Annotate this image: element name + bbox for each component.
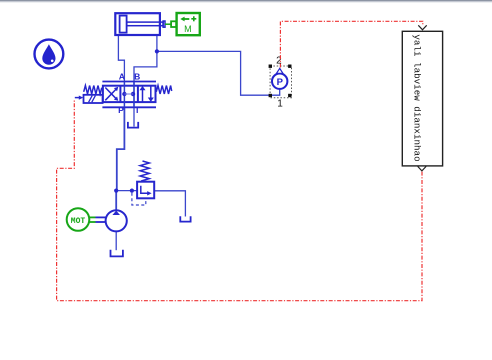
svg-text:B: B bbox=[134, 71, 140, 81]
svg-text:yali labview dianxinhao: yali labview dianxinhao bbox=[412, 34, 423, 161]
svg-text:P: P bbox=[277, 77, 284, 88]
svg-text:T: T bbox=[135, 105, 141, 115]
svg-text:2: 2 bbox=[276, 56, 282, 67]
svg-text:M: M bbox=[184, 24, 192, 34]
svg-text:P: P bbox=[118, 105, 124, 115]
svg-text:MOT: MOT bbox=[71, 217, 86, 226]
svg-text:1: 1 bbox=[277, 98, 283, 109]
svg-text:A: A bbox=[119, 71, 125, 81]
